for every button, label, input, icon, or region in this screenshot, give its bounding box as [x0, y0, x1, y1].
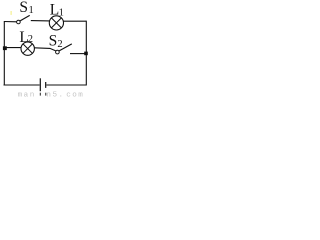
- label L2: [19, 29, 33, 46]
- wire S2 to right junction: [70, 53, 86, 55]
- wire bottom-right segment: [46, 84, 86, 86]
- label S2: [49, 32, 63, 49]
- svg-text:2: 2: [57, 39, 62, 50]
- svg-text:1: 1: [29, 5, 34, 16]
- watermark dark dash 2: [45, 93, 46, 96]
- svg-text:S: S: [19, 0, 28, 16]
- label S1: [19, 0, 33, 16]
- switch S2: [56, 44, 72, 54]
- svg-text:n5.: n5.: [46, 91, 64, 99]
- wire L1 to top-right corner: [63, 20, 86, 22]
- yellow watermark speck: [10, 11, 12, 15]
- wire top-left segment: [4, 21, 17, 23]
- battery: [40, 78, 45, 91]
- node junction left: [3, 46, 7, 50]
- svg-text:man: man: [18, 91, 36, 99]
- watermark text manfen5.com: [18, 91, 85, 99]
- lamp L1: [49, 16, 63, 30]
- wire S1 to L1: [31, 20, 50, 22]
- wire left edge: [3, 21, 5, 86]
- wire junction to L2: [4, 47, 21, 49]
- label L1: [50, 1, 64, 18]
- watermark dark dash 1: [40, 93, 41, 96]
- node junction right: [84, 52, 88, 56]
- wire right edge: [85, 21, 87, 86]
- wire bottom-left segment: [4, 84, 40, 86]
- svg-text:com: com: [66, 91, 84, 99]
- switch S1: [17, 15, 30, 23]
- wire L2 to S2: [34, 48, 55, 51]
- svg-text:S: S: [49, 32, 58, 49]
- lamp L2: [21, 42, 34, 55]
